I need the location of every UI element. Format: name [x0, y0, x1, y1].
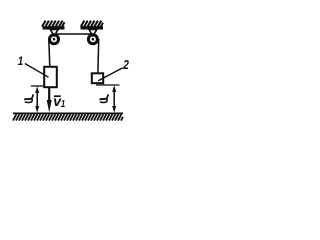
label 2 pointer [98, 68, 123, 81]
rope down to block 2 [97, 39, 100, 74]
floor line [13, 112, 123, 114]
ceiling hatching left [42, 21, 65, 27]
floor hatching [13, 114, 123, 120]
h arrow right (double headed) [113, 90, 115, 108]
ceiling bar left [43, 26, 65, 29]
svg-text:1: 1 [61, 98, 65, 109]
h tick left [31, 85, 44, 87]
rope horizontal between pulleys [53, 33, 94, 35]
ceiling bar right [81, 26, 104, 29]
pulley right [88, 35, 97, 44]
svg-text:1: 1 [18, 55, 23, 68]
ceiling hatching right [81, 21, 103, 27]
label v1 [54, 95, 61, 97]
pulley mount left [50, 30, 58, 36]
block 2 [92, 73, 103, 83]
velocity arrow v1 [48, 88, 50, 101]
label h left (rotated) [24, 94, 33, 102]
h arrow left (double headed) [36, 91, 38, 108]
pulley mount right [89, 30, 97, 36]
label h right (rotated) [99, 94, 108, 102]
label 1 pointer [25, 64, 49, 78]
rope down to block 1 [49, 39, 50, 67]
h tick right [96, 84, 120, 86]
block 1 [44, 67, 57, 87]
svg-text:2: 2 [122, 58, 129, 72]
pulley left [50, 35, 59, 44]
